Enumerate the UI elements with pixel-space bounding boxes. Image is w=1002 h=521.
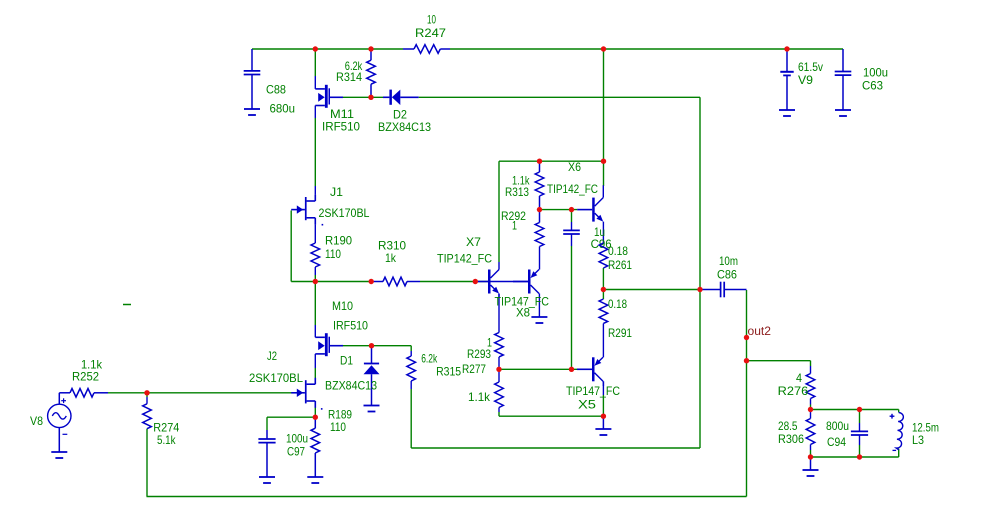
svg-text:110: 110	[325, 247, 341, 261]
label 1	[487, 336, 492, 350]
svg-text:IRF510: IRF510	[322, 120, 360, 134]
ground	[51, 452, 67, 458]
svg-text:6.2k: 6.2k	[421, 352, 438, 366]
label C94	[827, 435, 846, 449]
capacitor C96	[563, 230, 580, 234]
label 1k	[385, 251, 397, 265]
wire	[811, 456, 899, 458]
ground	[531, 317, 547, 323]
label 2SK170BL	[249, 371, 303, 385]
svg-text:680u: 680u	[270, 102, 296, 116]
wire	[267, 416, 315, 418]
svg-text:R315: R315	[436, 365, 461, 379]
wire	[571, 234, 573, 246]
wire	[810, 450, 812, 457]
label 6.2k	[345, 59, 363, 73]
svg-text:C97: C97	[287, 445, 305, 459]
wire	[314, 186, 316, 195]
wire	[859, 410, 861, 424]
ground	[259, 477, 275, 483]
ground	[595, 416, 611, 435]
label C97	[287, 445, 305, 459]
label 0.18	[608, 297, 627, 311]
junction	[369, 279, 374, 284]
wire	[410, 346, 412, 351]
label TIP147_FC	[566, 384, 620, 398]
label 110	[330, 420, 346, 434]
junction	[744, 335, 749, 340]
wire	[859, 435, 861, 445]
wire	[746, 290, 748, 497]
wire	[314, 354, 316, 368]
wire	[314, 225, 316, 243]
wire	[291, 281, 315, 283]
wire	[811, 409, 899, 411]
label 10	[427, 13, 436, 27]
wire	[343, 96, 383, 98]
junction	[369, 343, 374, 348]
capacitor C63	[835, 49, 852, 110]
mosfet M10	[315, 333, 343, 356]
label X6	[568, 160, 581, 174]
label M10	[332, 299, 353, 313]
resistor R310	[371, 277, 420, 286]
wire	[810, 366, 812, 374]
svg-text:M10: M10	[332, 299, 353, 313]
ground	[835, 110, 851, 116]
wire	[411, 447, 700, 449]
capacitor C94	[851, 431, 868, 435]
wire	[410, 381, 412, 389]
svg-text:C63: C63	[862, 79, 883, 93]
label 1.1k	[468, 390, 491, 404]
svg-text:R247: R247	[415, 26, 446, 40]
junction	[537, 207, 542, 212]
label 10m	[719, 254, 738, 268]
resistor R252	[59, 389, 108, 398]
wire	[602, 222, 604, 243]
wire	[498, 369, 500, 382]
resistor R315	[407, 356, 416, 381]
label L3	[912, 433, 924, 447]
label V9	[798, 73, 813, 87]
label TIP142_FC	[437, 252, 492, 266]
wire	[571, 246, 573, 369]
jfet J1	[291, 195, 315, 225]
svg-text:2SK170BL: 2SK170BL	[249, 371, 303, 385]
inductor L3	[890, 413, 904, 451]
svg-text:28.5: 28.5	[778, 419, 798, 433]
label 110	[325, 247, 341, 261]
label BZX84C13	[378, 120, 431, 134]
junction	[857, 407, 862, 412]
svg-text:2SK170BL: 2SK170BL	[319, 206, 370, 220]
svg-text:800u: 800u	[826, 419, 849, 433]
voltage source V9	[780, 49, 793, 110]
wire	[315, 281, 371, 283]
svg-text:J1: J1	[330, 185, 343, 199]
wire	[419, 96, 700, 98]
wire	[498, 161, 500, 262]
label R261	[608, 258, 632, 272]
label 800u	[826, 419, 849, 433]
svg-text:R314: R314	[336, 70, 362, 84]
wire	[450, 48, 843, 50]
wire	[410, 389, 412, 448]
resistor R291	[599, 299, 608, 323]
label TIP147_FC	[495, 295, 550, 309]
svg-text:D1: D1	[340, 354, 353, 368]
svg-text:10m: 10m	[719, 254, 738, 268]
svg-text:1k: 1k	[385, 251, 397, 265]
label 1.1k	[512, 174, 530, 188]
svg-text:R306: R306	[778, 432, 804, 446]
junction	[808, 454, 813, 459]
svg-text:1: 1	[512, 219, 517, 233]
wire	[498, 408, 500, 413]
label R291	[608, 326, 632, 340]
resistor R306	[806, 419, 815, 445]
svg-text:R291: R291	[608, 326, 632, 340]
label BZX84C13	[325, 379, 377, 393]
junction	[496, 367, 501, 372]
svg-text:R313: R313	[505, 185, 529, 199]
wire	[499, 160, 604, 162]
svg-text:R293: R293	[467, 347, 491, 361]
ground	[307, 453, 323, 483]
resistor R314	[367, 49, 376, 97]
wire	[498, 412, 500, 416]
jfet J2	[291, 378, 315, 408]
wire	[498, 357, 500, 369]
wire	[810, 399, 812, 405]
svg-text:IRF510: IRF510	[333, 319, 368, 333]
svg-text:R277: R277	[462, 362, 486, 376]
wire	[603, 49, 605, 161]
wire	[539, 247, 541, 270]
node out2	[748, 324, 772, 338]
svg-text:BZX84C13: BZX84C13	[325, 379, 377, 393]
label 1u	[594, 225, 605, 239]
junction	[601, 414, 606, 419]
label R306	[778, 432, 804, 446]
wire	[314, 368, 316, 378]
label TIP142_FC	[547, 182, 598, 196]
svg-text:110: 110	[330, 420, 346, 434]
junction	[569, 367, 574, 372]
svg-text:out2: out2	[748, 324, 772, 338]
label X7	[466, 235, 481, 249]
resistor R276	[806, 374, 815, 399]
label IRF510	[333, 319, 368, 333]
wire	[290, 211, 292, 282]
svg-text:X8: X8	[516, 306, 530, 320]
svg-text:C94: C94	[827, 435, 846, 449]
ground	[364, 406, 380, 412]
node mark	[321, 408, 323, 410]
diode D2	[383, 90, 419, 105]
wire	[108, 392, 295, 394]
resistor R247	[403, 45, 450, 54]
wire	[410, 351, 412, 356]
label IRF510	[322, 120, 360, 134]
wire	[499, 368, 577, 370]
junction	[368, 95, 373, 100]
junction	[368, 46, 373, 51]
svg-text:X7: X7	[466, 235, 481, 249]
wire	[571, 222, 573, 230]
label 6.2k	[421, 352, 438, 366]
svg-text:61.5v: 61.5v	[798, 60, 823, 74]
voltage source V8	[48, 393, 71, 452]
svg-text:5.1k: 5.1k	[157, 433, 176, 447]
svg-text:100u: 100u	[863, 66, 888, 80]
wire	[146, 429, 148, 497]
wire	[314, 282, 316, 326]
label R315	[436, 365, 461, 379]
junction	[473, 279, 478, 284]
svg-text:V9: V9	[798, 73, 813, 87]
node mark	[322, 224, 324, 226]
label 12.5m	[912, 421, 939, 435]
npn transistor X7	[473, 270, 499, 299]
label R252	[72, 370, 99, 384]
junction	[744, 358, 749, 363]
wire	[314, 325, 316, 337]
ground	[779, 110, 795, 116]
wire	[747, 360, 811, 362]
svg-text:10: 10	[427, 13, 436, 27]
wire	[602, 381, 604, 395]
junction	[601, 46, 606, 51]
resistor R261	[599, 243, 608, 268]
svg-text:J2: J2	[267, 349, 277, 363]
svg-text:R190: R190	[325, 234, 352, 248]
resistor R292	[535, 210, 544, 247]
svg-text:R261: R261	[608, 258, 632, 272]
svg-text:TIP142_FC: TIP142_FC	[547, 182, 598, 196]
label D1	[340, 354, 353, 368]
wire	[602, 268, 604, 290]
svg-text:X6: X6	[568, 160, 581, 174]
junction	[808, 407, 813, 412]
svg-text:TIP142_FC: TIP142_FC	[437, 252, 492, 266]
junction	[144, 390, 149, 395]
wire	[540, 209, 578, 211]
wire	[343, 345, 411, 347]
svg-text:1.1k: 1.1k	[468, 390, 491, 404]
junction	[537, 159, 542, 164]
wire	[571, 210, 573, 222]
label 4	[796, 371, 802, 385]
label R189	[328, 408, 352, 422]
junction	[601, 159, 606, 164]
junction	[313, 279, 318, 284]
svg-text:L3: L3	[912, 433, 924, 447]
net minus mark	[123, 304, 131, 306]
wire	[146, 393, 148, 397]
wire	[314, 49, 316, 76]
wire	[859, 423, 861, 431]
label R293	[467, 347, 491, 361]
resistor R274	[143, 404, 152, 429]
label D2	[393, 108, 407, 122]
ground	[244, 109, 260, 115]
wire	[859, 445, 861, 457]
pnp transistor X8	[491, 270, 540, 318]
label R276	[778, 384, 809, 398]
svg-text:0.18: 0.18	[608, 244, 628, 258]
junction	[784, 46, 789, 51]
junction	[313, 415, 318, 420]
svg-text:TIP147_FC: TIP147_FC	[566, 384, 620, 398]
wire	[810, 405, 812, 410]
wire	[498, 294, 500, 333]
junction	[857, 454, 862, 459]
wire	[602, 395, 604, 416]
label R292	[501, 209, 526, 223]
npn transistor X6	[577, 185, 603, 221]
wire	[810, 361, 812, 366]
junction	[601, 287, 606, 292]
wire	[147, 496, 747, 498]
wire	[252, 48, 403, 50]
label 61.5v	[798, 60, 823, 74]
svg-text:V8: V8	[30, 414, 43, 428]
resistor R190	[311, 243, 320, 267]
label J1	[330, 185, 343, 199]
wire	[420, 281, 475, 283]
label X8	[516, 306, 530, 320]
wire	[314, 401, 316, 417]
capacitor C86	[700, 282, 747, 298]
label 1	[512, 219, 517, 233]
wire	[602, 290, 604, 300]
label C88	[266, 83, 286, 97]
label 1.1k	[81, 358, 103, 372]
capacitor C97	[258, 417, 275, 477]
junction	[697, 287, 702, 292]
svg-text:0.18: 0.18	[608, 297, 627, 311]
label C86	[717, 268, 737, 282]
label R310	[378, 239, 406, 253]
label C63	[862, 79, 883, 93]
label M11	[330, 107, 354, 121]
wire	[146, 397, 148, 404]
resistor R313	[535, 161, 544, 209]
wire	[810, 410, 812, 419]
label R247	[415, 26, 446, 40]
label 5.1k	[157, 433, 176, 447]
svg-text:R276: R276	[778, 384, 809, 398]
wire	[898, 410, 900, 413]
label X5	[578, 398, 596, 412]
svg-text:C88: C88	[266, 83, 286, 97]
label C96	[591, 237, 612, 251]
label 100u	[863, 66, 888, 80]
svg-text:R252: R252	[72, 370, 99, 384]
label 100u	[286, 432, 308, 446]
svg-text:BZX84C13: BZX84C13	[378, 120, 431, 134]
junction	[313, 46, 318, 51]
wire	[699, 97, 701, 448]
wire	[603, 161, 605, 186]
ground	[803, 457, 819, 476]
wire	[499, 415, 603, 417]
mosfet M11	[315, 85, 343, 108]
wire	[314, 275, 316, 282]
label R277	[462, 362, 486, 376]
svg-text:100u: 100u	[286, 432, 308, 446]
wire	[498, 262, 500, 270]
label R314	[336, 70, 362, 84]
label V8	[30, 414, 43, 428]
label 0.18	[608, 244, 628, 258]
label 28.5	[778, 419, 798, 433]
label 2SK170BL	[319, 206, 370, 220]
svg-text:X5: X5	[578, 398, 596, 412]
label R313	[505, 185, 529, 199]
label 680u	[270, 102, 296, 116]
diode D1	[364, 346, 380, 406]
svg-text:C86: C86	[717, 268, 737, 282]
label J2	[267, 349, 277, 363]
resistor R277	[495, 382, 504, 407]
wire	[314, 118, 316, 186]
wire	[475, 281, 488, 283]
resistor R189	[311, 417, 320, 453]
resistor R293	[495, 333, 504, 357]
label R274	[153, 421, 179, 435]
label R190	[325, 234, 352, 248]
wire	[602, 324, 604, 358]
capacitor C88	[244, 49, 261, 109]
svg-text:4: 4	[796, 371, 802, 385]
wire	[810, 445, 812, 451]
wire	[898, 449, 900, 457]
wire	[314, 267, 316, 275]
junction	[569, 207, 574, 212]
pnp transistor X5	[577, 357, 603, 386]
wire	[603, 289, 700, 291]
wire	[314, 76, 316, 89]
wire	[314, 106, 316, 119]
